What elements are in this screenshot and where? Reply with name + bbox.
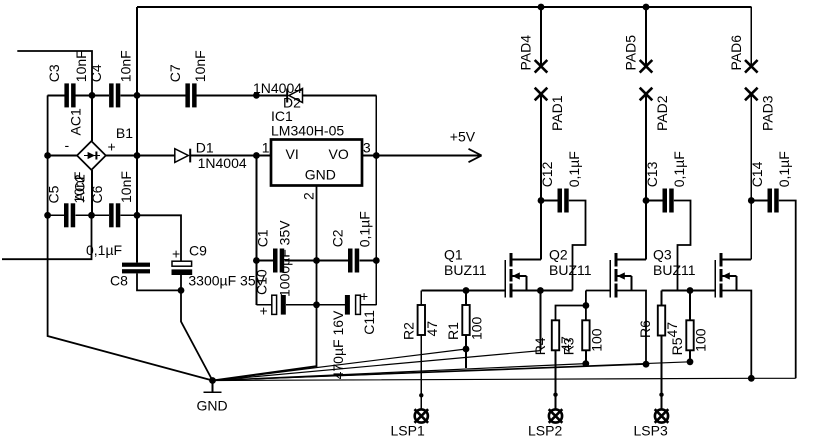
label +5V <box>450 129 476 145</box>
label Q3 value <box>653 262 696 278</box>
label D1 <box>196 140 214 156</box>
svg-text:C7: C7 <box>167 64 183 82</box>
svg-text:+: + <box>108 139 116 155</box>
svg-text:VI: VI <box>286 146 299 162</box>
svg-text:C8: C8 <box>110 273 128 289</box>
wire filter line C3/C4/C7 to D2 <box>48 94 377 96</box>
resistor R6 <box>637 291 680 339</box>
svg-text:C9: C9 <box>189 243 207 259</box>
pin 3 label <box>363 140 371 156</box>
wire Q2 gate line <box>586 290 610 292</box>
pad PAD6 <box>728 35 758 73</box>
svg-text:C13: C13 <box>644 161 660 187</box>
resistor R3 <box>561 320 605 355</box>
diode D2 <box>286 89 302 103</box>
svg-text:0,1µF: 0,1µF <box>86 242 122 258</box>
svg-text:PAD4: PAD4 <box>518 35 534 71</box>
svg-text:Q2: Q2 <box>549 246 568 262</box>
wire GND to right rail <box>213 378 796 380</box>
wire GND to Q2 source <box>213 364 647 380</box>
svg-text:LSP3: LSP3 <box>634 423 668 439</box>
label Q2 <box>549 246 568 262</box>
label Q1 <box>444 246 463 262</box>
svg-text:AC2: AC2 <box>72 174 88 201</box>
svg-text:BUZ11: BUZ11 <box>653 262 696 278</box>
wire B1 top vertical <box>91 95 93 141</box>
svg-text:R3: R3 <box>561 337 577 355</box>
wire VO node column <box>375 156 377 305</box>
label D2 value <box>253 80 302 96</box>
capacitor C6 <box>89 171 134 227</box>
svg-text:R1: R1 <box>445 322 461 340</box>
capacitor C2 <box>330 211 373 272</box>
svg-text:3: 3 <box>363 140 371 156</box>
wire Q1 gate line <box>421 290 505 292</box>
capacitor C4 <box>88 50 134 107</box>
wire C9 bottom to GND <box>181 275 213 381</box>
svg-text:C3: C3 <box>46 64 62 82</box>
svg-text:B1: B1 <box>116 125 133 141</box>
wire electrolytic line C10/C11 <box>256 304 376 306</box>
pad PAD5 <box>623 35 653 73</box>
label Q1 value <box>444 262 487 278</box>
svg-text:0,1µF: 0,1µF <box>671 151 687 187</box>
label C10 value <box>330 310 346 379</box>
wire PAD1 to Q1 drain <box>540 94 542 260</box>
svg-text:+5V: +5V <box>450 129 476 145</box>
terminal LSP1 <box>391 409 429 438</box>
svg-text:2: 2 <box>301 192 317 200</box>
label AC2 <box>72 174 88 201</box>
svg-text:47: 47 <box>424 321 440 337</box>
wire IC1 GND pin2 column <box>213 186 317 381</box>
resistor R1 <box>445 291 485 341</box>
wire AC input stub bottom <box>2 215 92 259</box>
svg-text:R5: R5 <box>669 337 685 355</box>
label B1 minus <box>65 137 70 153</box>
label C8 value <box>86 242 122 258</box>
svg-text:1N4004: 1N4004 <box>253 80 302 96</box>
capacitor C10 electrolytic <box>254 269 286 318</box>
svg-text:R6: R6 <box>637 320 653 338</box>
wire R4 jog <box>556 306 586 321</box>
svg-text:C11: C11 <box>361 310 377 335</box>
wire C6 to C9 top <box>137 215 181 261</box>
capacitor C9 electrolytic <box>172 243 208 276</box>
svg-text:IC1: IC1 <box>271 108 293 124</box>
wire C8 column <box>136 215 138 262</box>
wire PAD5 column <box>645 7 647 66</box>
wire Q2 gate jog <box>585 291 587 306</box>
regulator IC1 <box>271 140 362 186</box>
svg-text:C14: C14 <box>749 161 765 187</box>
wire Q1 source to GND <box>539 291 541 351</box>
svg-text:BUZ11: BUZ11 <box>549 262 592 278</box>
label IC1 <box>271 108 293 124</box>
wire B1 bottom vertical <box>91 170 93 215</box>
svg-text:AC1: AC1 <box>67 108 83 135</box>
wire VI node column <box>255 156 257 305</box>
pin 2 label <box>301 192 317 200</box>
svg-text:10nF: 10nF <box>192 50 208 82</box>
svg-text:PAD3: PAD3 <box>759 95 775 131</box>
svg-text:Q3: Q3 <box>653 246 672 262</box>
svg-text:C4: C4 <box>88 64 104 82</box>
label GND <box>197 398 228 414</box>
svg-text:10nF: 10nF <box>118 171 134 203</box>
svg-text:LSP1: LSP1 <box>391 423 425 439</box>
wire R5 to GND <box>689 350 691 362</box>
svg-text:1N4004: 1N4004 <box>198 155 247 171</box>
capacitor C8 <box>110 263 150 289</box>
label IC1 value <box>271 123 344 139</box>
capacitor C7 <box>167 50 208 107</box>
pad PAD3 <box>745 88 775 131</box>
transistor Q1 <box>505 253 541 298</box>
resistor R4 <box>532 320 574 355</box>
wire R1 to GND <box>465 335 467 368</box>
capacitor C13 <box>644 151 690 290</box>
svg-text:C12: C12 <box>539 161 555 187</box>
wire D1 to IC1 VI <box>191 155 271 157</box>
wire PAD4 column <box>540 7 542 66</box>
svg-text:C1: C1 <box>255 229 271 247</box>
terminal LSP2 <box>528 409 562 438</box>
wire GND to R1 <box>213 349 467 381</box>
svg-text:1: 1 <box>262 140 270 156</box>
svg-text:C5: C5 <box>46 185 62 203</box>
wire top +V rail <box>137 6 751 8</box>
label D1 value <box>198 155 247 171</box>
wire PAD3 to Q3 drain <box>750 94 752 260</box>
wire R2 to LSP1 <box>419 335 423 409</box>
wire VO output to +5V <box>362 155 482 157</box>
svg-text:PAD6: PAD6 <box>728 35 744 71</box>
capacitor C14 <box>749 151 796 378</box>
pad PAD4 <box>518 35 548 73</box>
wire main B1 minus <box>48 155 77 157</box>
capacitor C3 <box>46 50 89 107</box>
wire GND to R5 <box>213 362 691 381</box>
wire GND to Q1 source <box>213 351 541 381</box>
wire Q3 source line <box>721 291 751 379</box>
label D2 <box>283 95 301 111</box>
wire GND to R3 <box>213 364 586 381</box>
svg-text:100: 100 <box>693 328 709 352</box>
resistor R5 <box>669 291 709 356</box>
capacitor C1 <box>255 220 293 297</box>
svg-text:100: 100 <box>469 316 485 340</box>
label AC1 <box>67 108 83 135</box>
svg-text:0,1µF: 0,1µF <box>776 151 792 187</box>
svg-text:D1: D1 <box>196 140 214 156</box>
label B1 <box>116 125 133 141</box>
wire AC input stub top <box>17 51 92 95</box>
svg-text:R4: R4 <box>532 337 548 355</box>
capacitor C5 <box>46 172 88 228</box>
wire filter line C5/C6 <box>48 214 137 216</box>
svg-text:10nF: 10nF <box>118 50 134 82</box>
wire PAD6 column <box>750 7 752 66</box>
svg-text:0,1µF: 0,1µF <box>357 211 373 247</box>
wire R6 to LSP3 <box>659 336 663 410</box>
svg-text:+: + <box>260 303 268 319</box>
svg-text:Q1: Q1 <box>444 246 463 262</box>
terminal LSP3 <box>634 409 669 438</box>
svg-text:+: + <box>172 246 180 262</box>
diode D1 <box>175 149 191 163</box>
wire left feed column <box>136 7 138 263</box>
svg-text:PAD1: PAD1 <box>549 95 565 131</box>
svg-text:BUZ11: BUZ11 <box>444 262 487 278</box>
wire R3 to GND <box>585 350 587 363</box>
wire Q1 source line <box>511 290 573 292</box>
wire Q3 gate line <box>662 290 716 292</box>
svg-text:PAD5: PAD5 <box>623 35 639 71</box>
svg-text:470µF 16V: 470µF 16V <box>330 310 346 379</box>
wire main B1 plus to D1 <box>106 155 175 157</box>
pin 1 label <box>262 140 270 156</box>
svg-text:GND: GND <box>197 398 228 414</box>
transistor Q2 <box>610 253 646 298</box>
bridge rectifier B1 <box>77 141 106 170</box>
svg-text:PAD2: PAD2 <box>654 95 670 131</box>
transistor Q3 <box>715 253 751 298</box>
svg-text:GND: GND <box>305 167 336 183</box>
wire PAD2 to Q2 drain <box>645 94 647 260</box>
label B1 plus <box>108 139 116 155</box>
capacitor C12 <box>539 151 585 290</box>
label C9 value <box>188 273 265 289</box>
svg-text:VO: VO <box>329 146 349 162</box>
svg-text:100: 100 <box>589 328 605 352</box>
svg-text:3300µF 35V: 3300µF 35V <box>188 273 265 289</box>
label Q3 <box>653 246 672 262</box>
pad PAD2 <box>640 88 670 131</box>
wire D2 return to VO <box>375 95 377 155</box>
svg-text:10nF: 10nF <box>73 50 89 82</box>
svg-text:LM340H-05: LM340H-05 <box>271 123 344 139</box>
svg-text:47: 47 <box>664 322 680 338</box>
resistor R2 <box>401 291 441 341</box>
svg-text:+: + <box>360 288 368 304</box>
svg-text:LSP2: LSP2 <box>528 423 562 439</box>
pad PAD1 <box>535 88 565 131</box>
wire left ground rail <box>48 95 213 380</box>
node +5V arrow <box>469 149 482 162</box>
label Q2 value <box>549 262 592 278</box>
svg-text:1000µF 35V: 1000µF 35V <box>277 220 293 297</box>
wire C1/C2 line <box>256 260 376 262</box>
svg-text:-: - <box>65 137 70 153</box>
wire R4 to LSP2 <box>553 350 557 409</box>
ground GND star <box>204 377 222 392</box>
svg-text:C6: C6 <box>89 185 105 203</box>
svg-text:C2: C2 <box>330 229 346 247</box>
wire C8 bottom to C9 <box>137 273 181 290</box>
svg-text:R2: R2 <box>401 322 417 340</box>
wire Q2 source line <box>616 291 646 365</box>
svg-text:0,1µF: 0,1µF <box>566 151 582 187</box>
capacitor C11 electrolytic <box>345 288 377 335</box>
